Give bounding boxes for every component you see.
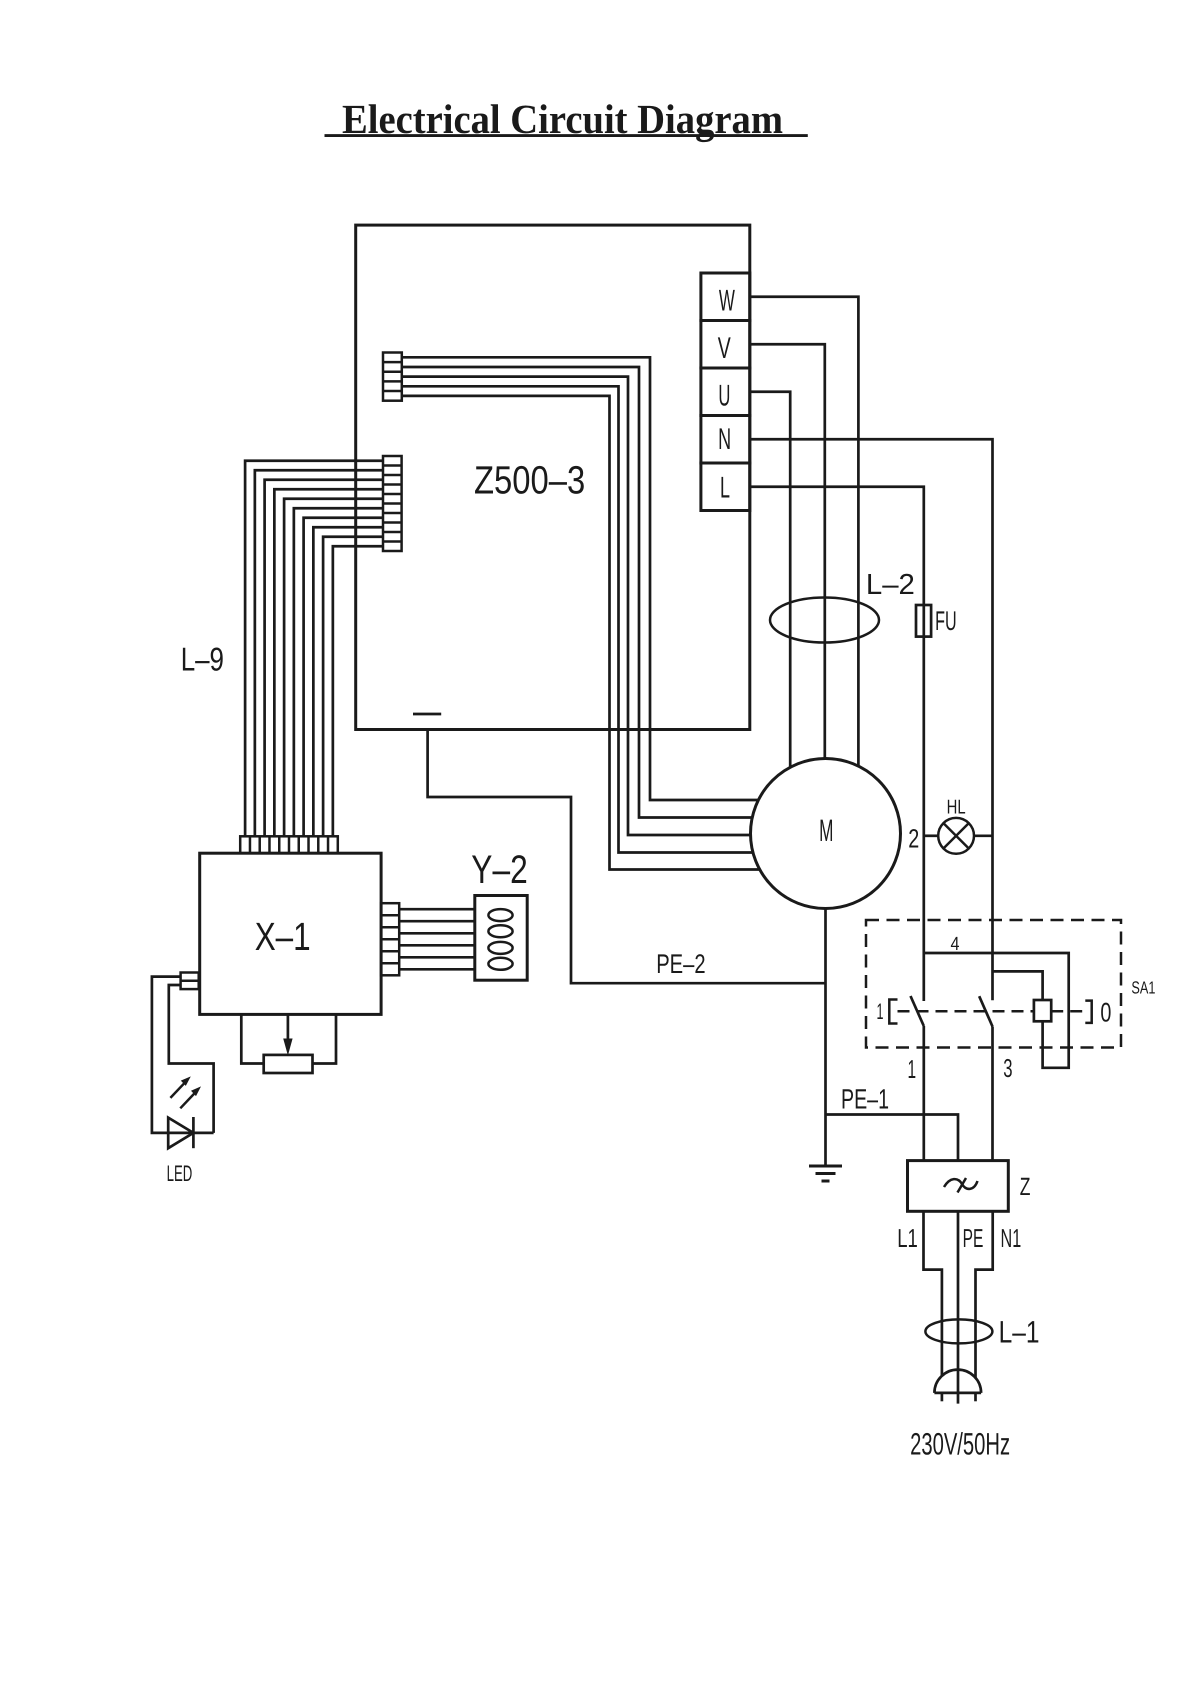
wire X2 pin4 to motor: [402, 386, 753, 852]
LED light arrows: [170, 1076, 201, 1108]
wire motor to ground: [824, 908, 827, 1166]
connector X3 (10-pin on Z500-3): [383, 456, 402, 551]
control board Z500-3: [356, 225, 750, 729]
board X-1: [200, 853, 381, 1014]
plug: [934, 1370, 981, 1402]
switch SA1-b blade: [979, 996, 992, 1026]
svg-text:L–2: L–2: [866, 569, 915, 601]
wire U to motor: [750, 392, 790, 768]
wire X2 pin2 to motor: [402, 367, 752, 818]
svg-text:M: M: [819, 813, 833, 848]
wire X2 pin5 to motor: [402, 396, 760, 870]
wire PE-1: [826, 1115, 959, 1161]
neon lamp: [1034, 1000, 1051, 1021]
filter Z: [908, 1161, 1009, 1212]
svg-text:X–1: X–1: [255, 915, 311, 959]
wire neon branch: [993, 971, 1043, 1000]
ribbon cable L-9 wire 7: [304, 518, 383, 837]
wire L1: [924, 1211, 942, 1376]
actuator bracket 1: [889, 1000, 897, 1024]
connector X4 (10-pin on X-1 top): [240, 836, 338, 853]
svg-text:L–9: L–9: [181, 641, 224, 678]
svg-text:230V/50Hz: 230V/50Hz: [910, 1427, 1010, 1462]
wire LED cathode loop: [169, 985, 214, 1133]
wire switch1 to Z: [922, 1026, 925, 1161]
wire V to motor: [750, 344, 825, 758]
svg-text:W: W: [719, 285, 735, 318]
terminal U: [701, 368, 750, 416]
connector X5 (6-pin on X-1 right): [381, 903, 399, 975]
svg-text:2: 2: [908, 824, 919, 854]
connector X2 (5-pin on Z500-3): [383, 353, 402, 401]
wires X5 to Y-2: [399, 909, 475, 969]
svg-text:HL: HL: [947, 796, 966, 818]
svg-text:SA1: SA1: [1131, 978, 1155, 998]
choke L-2: [770, 598, 879, 643]
title underline: [325, 134, 808, 137]
wire PE-2: [428, 730, 826, 984]
svg-text:4: 4: [951, 934, 960, 955]
switch SA1-a blade: [911, 996, 924, 1026]
ground: [809, 1166, 842, 1181]
svg-text:3: 3: [1003, 1053, 1012, 1083]
ribbon cable L-9 wire 5: [284, 499, 383, 837]
terminal V: [701, 321, 750, 369]
terminal L: [701, 463, 750, 511]
LED diode: [168, 1117, 193, 1148]
svg-text:Y–2: Y–2: [471, 848, 527, 892]
svg-text:V: V: [718, 332, 731, 365]
terminal W: [701, 273, 750, 321]
ribbon cable L-9 wire 8: [313, 527, 383, 836]
ribbon cable L-9 wire 9: [323, 537, 383, 837]
fuse FU: [916, 605, 931, 637]
svg-text:FU: FU: [935, 606, 957, 636]
svg-text:1: 1: [908, 1054, 917, 1084]
svg-text:U: U: [718, 380, 730, 413]
ribbon cable L-9 wire 4: [274, 489, 383, 836]
svg-text:PE: PE: [963, 1223, 984, 1253]
ribbon cable L-9 wire 6: [294, 508, 383, 836]
wire LED anode: [152, 977, 214, 1133]
wire X2 pin3 to motor: [402, 377, 751, 835]
svg-text:LED: LED: [167, 1161, 193, 1186]
svg-text:N: N: [718, 423, 731, 456]
svg-text:PE–1: PE–1: [841, 1084, 889, 1115]
wire lamp right: [974, 834, 993, 837]
svg-text:0: 0: [1100, 997, 1111, 1027]
lamp HL: [938, 818, 974, 854]
ribbon cable L-9 wire 10: [333, 546, 383, 836]
wire X2 pin1 to motor: [402, 357, 759, 800]
wire switch2 to Z: [991, 1027, 994, 1161]
svg-text:Z: Z: [1020, 1173, 1031, 1201]
linkage dashed: [898, 1010, 1086, 1013]
svg-text:L–1: L–1: [999, 1314, 1040, 1349]
wire W to motor: [750, 297, 859, 766]
actuator bracket 0: [1085, 1001, 1091, 1023]
trimmer wires: [241, 1014, 336, 1063]
wire N1: [976, 1211, 993, 1377]
svg-text:L1: L1: [897, 1223, 918, 1253]
svg-text:1: 1: [877, 999, 884, 1024]
switch box SA1 dashed: [866, 920, 1121, 1048]
svg-text:N1: N1: [1001, 1223, 1022, 1253]
ribbon cable L-9 wire 2: [255, 470, 383, 836]
svg-text:Z500–3: Z500–3: [474, 459, 585, 503]
wire L down through fuse to switch SA1-a: [750, 487, 924, 1001]
svg-text:L: L: [720, 472, 730, 505]
terminal N: [701, 416, 750, 464]
cord grommet L-1: [925, 1319, 992, 1343]
trimmer resistor: [264, 1055, 313, 1073]
ribbon cable L-9 wire 1: [245, 461, 383, 837]
trimmer arrow: [283, 1014, 292, 1055]
connector X6 (2-pin on X-1 left): [181, 973, 199, 990]
motor M: [751, 759, 901, 909]
board pin tick: [413, 713, 441, 716]
wire N down to switch SA1-b: [750, 439, 993, 1000]
wire PE pin: [957, 1211, 960, 1403]
ribbon cable L-9 wire 3: [265, 480, 383, 837]
wire link 4: [924, 953, 1069, 1068]
wire lamp left: [924, 834, 938, 837]
connector Y-2: [475, 896, 527, 981]
svg-text:PE–2: PE–2: [656, 949, 705, 979]
